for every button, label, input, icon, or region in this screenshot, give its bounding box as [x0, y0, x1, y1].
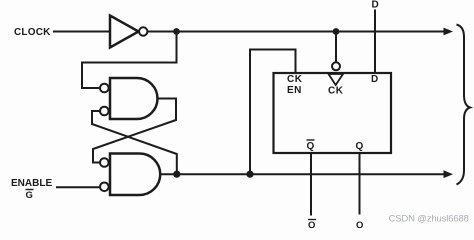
- arrow bottom right: [444, 170, 454, 178]
- NAND gate G2 (bottom): [110, 154, 160, 196]
- junction G2 output node: [173, 171, 180, 178]
- G2 input bubble top: [100, 158, 109, 167]
- wire CLOCK to inverter: [53, 31, 110, 33]
- wire D input: [374, 10, 376, 74]
- svg-text:G: G: [26, 190, 33, 201]
- wire G2 output to right arrow: [160, 173, 445, 175]
- svg-text:D: D: [371, 74, 378, 85]
- wire G1 output to G2 top input (cross feedback B): [93, 99, 176, 163]
- svg-text:EN: EN: [287, 85, 302, 96]
- svg-text:Q: Q: [356, 141, 364, 152]
- inverter U1: [110, 16, 139, 48]
- wire Q-bar output: [310, 153, 312, 216]
- wire clock junction down-left to gate G1 top input: [82, 32, 177, 89]
- wire gated clock up to CK/EN pin: [250, 50, 296, 175]
- brace: [457, 25, 471, 185]
- clock edge wedge: [329, 74, 344, 85]
- svg-text:ENABLE: ENABLE: [11, 178, 52, 189]
- svg-text:Q: Q: [308, 220, 315, 228]
- flip-flop box U2: [274, 73, 392, 153]
- junction gated-clock node: [246, 171, 253, 178]
- arrow top right: [444, 28, 454, 36]
- wire Q output: [359, 153, 361, 215]
- svg-text:D: D: [372, 0, 379, 11]
- G1 input bubble top: [100, 84, 109, 93]
- clock inversion bubble: [332, 62, 340, 70]
- svg-text:CSDN @zhusl6688: CSDN @zhusl6688: [389, 214, 469, 225]
- svg-text:Q: Q: [307, 141, 315, 152]
- NAND gate G1 (top): [110, 78, 157, 119]
- wire junction down to clock bubble: [335, 32, 337, 63]
- svg-text:CLOCK: CLOCK: [14, 27, 51, 38]
- wire G2 output to G1 bottom input (cross feedback A): [92, 111, 177, 172]
- junction D-flip-flop clock column: [333, 28, 340, 35]
- G2 input bubble bottom: [100, 183, 109, 192]
- svg-text:CK: CK: [287, 74, 303, 85]
- G1 input bubble bottom: [100, 107, 109, 116]
- junction clock node: [173, 28, 180, 35]
- svg-text:CK: CK: [328, 86, 344, 97]
- wire ENABLE to G2 bottom input: [56, 186, 100, 188]
- wire inverter output to right arrow: [147, 31, 445, 33]
- svg-text:Q: Q: [356, 220, 363, 228]
